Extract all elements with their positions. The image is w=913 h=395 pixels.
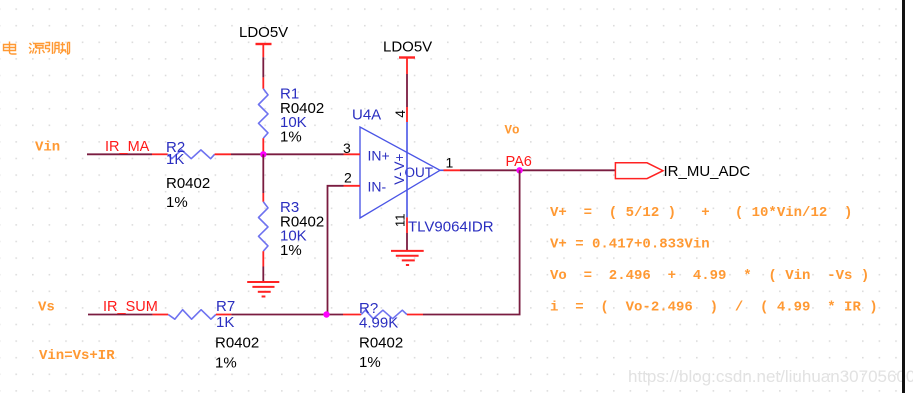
svg-text:1%: 1%: [215, 355, 237, 372]
ground (below R3): [247, 282, 279, 297]
svg-text:4: 4: [392, 110, 408, 118]
svg-text:V+ = ( 5/12 ) + ( 10*Vin: V+ = ( 5/12 ) + ( 10*Vin/12 ): [550, 205, 852, 221]
svg-text:2: 2: [344, 170, 352, 186]
svg-text:TLV9064IDR: TLV9064IDR: [408, 219, 494, 236]
wire IN- to bottom net: [328, 186, 344, 315]
svg-text:Vs: Vs: [38, 300, 55, 316]
svg-text:Vo: Vo: [505, 124, 520, 138]
svg-text:LDO5V: LDO5V: [239, 24, 288, 41]
note 电源引脚: [4, 42, 70, 55]
svg-text:1: 1: [446, 155, 454, 171]
hanzi 电: [4, 42, 17, 55]
svg-text:Vin: Vin: [35, 140, 60, 156]
wire Vin row: net IR_MA: [87, 153, 152, 155]
svg-text:V+: V+: [392, 153, 407, 170]
pin 3 stub: [344, 153, 361, 155]
svg-text:V+ = 0.417+0.833Vin: V+ = 0.417+0.833Vin: [550, 237, 710, 253]
svg-text:R0402: R0402: [359, 335, 403, 352]
hanzi 引: [46, 42, 53, 54]
power port LDO5V (left): [239, 24, 288, 57]
svg-text:1%: 1%: [280, 128, 302, 145]
wire power to R1: [262, 57, 264, 77]
resistor R1: [259, 77, 269, 154]
svg-text:4.99K: 4.99K: [359, 315, 398, 332]
ground (below pin 11): [406, 233, 408, 250]
pin 4 (V+) vertical: [406, 107, 408, 122]
svg-text:Vin=Vs+IR: Vin=Vs+IR: [39, 348, 115, 364]
port IR_MU_ADC: [615, 163, 663, 179]
svg-text:1K: 1K: [216, 314, 234, 331]
svg-text:Vo = 2.496 + 4.99 * ( Vi: Vo = 2.496 + 4.99 * ( Vin -Vs ): [550, 268, 869, 284]
svg-text:IR_MU_ADC: IR_MU_ADC: [664, 163, 751, 180]
wire R7 to junction: [231, 314, 343, 316]
svg-text:U4A: U4A: [352, 107, 381, 124]
wire (R2 right to pin3 of U4A): [231, 153, 344, 155]
svg-text:OUT: OUT: [405, 165, 434, 180]
svg-text:1K: 1K: [166, 151, 184, 168]
svg-text:V-: V-: [392, 172, 407, 185]
svg-text:R0402: R0402: [215, 335, 259, 352]
resistor R?: [343, 310, 423, 319]
pin 11 (V-) vertical: [406, 217, 408, 233]
svg-text:R7: R7: [216, 298, 235, 315]
svg-text:3: 3: [343, 140, 351, 156]
resistor R3: [259, 154, 269, 281]
hanzi 源: [29, 43, 45, 54]
wire power to pin 4: [406, 74, 408, 107]
resistor R2: [152, 150, 231, 159]
op-amp U4A: [352, 107, 494, 236]
power port LDO5V (above op-amp): [383, 39, 432, 75]
hanzi 脚: [54, 42, 70, 54]
sheet border (right edge): [902, 0, 905, 393]
junction node (R1/R2/R3/pin3): [260, 151, 266, 157]
svg-text:IR_MA: IR_MA: [105, 139, 150, 155]
svg-text:IN-: IN-: [368, 179, 387, 195]
resistor R7: [153, 310, 232, 320]
svg-text:1%: 1%: [280, 242, 302, 259]
svg-text:IN+: IN+: [368, 148, 390, 164]
wire PA6 down to feedback: [423, 170, 520, 314]
svg-text:i = ( Vo-2.496 ) / ( 4.9: i = ( Vo-2.496 ) / ( 4.99 * IR ): [550, 300, 878, 316]
pin 2 stub: [344, 185, 361, 187]
svg-text:LDO5V: LDO5V: [383, 39, 432, 56]
wire Vs row: net IR_SUM: [88, 314, 153, 316]
pin 1 stub: [440, 169, 444, 171]
svg-text:1%: 1%: [166, 194, 188, 211]
svg-text:IR_SUM: IR_SUM: [103, 299, 158, 315]
svg-text:R0402: R0402: [166, 175, 210, 192]
wire pin1 to port: [460, 169, 615, 171]
svg-text:11: 11: [393, 214, 408, 228]
svg-text:1%: 1%: [359, 354, 381, 371]
svg-text:https://blog.csdn.net/liuhuan3: https://blog.csdn.net/liuhuan307056001: [628, 367, 913, 386]
junction node PA6: [516, 167, 522, 173]
junction node (IN- / R7 / R?): [323, 311, 329, 317]
